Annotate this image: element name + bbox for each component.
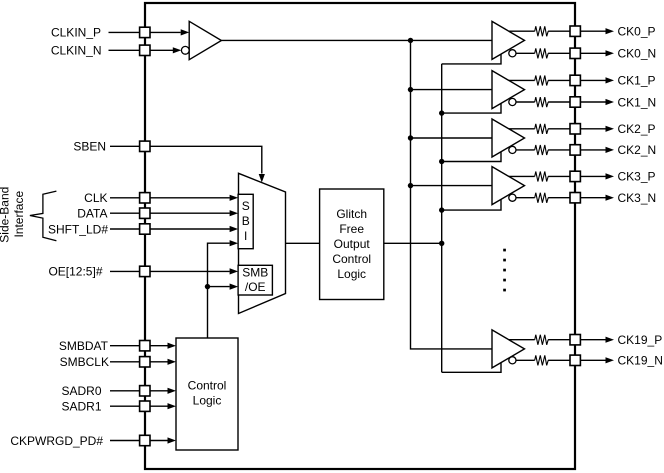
- wire: CKPWRGD_PD# pin into chip: [150, 440, 168, 442]
- arrow from control logic into /OE: [230, 284, 239, 290]
- SBI register box: [238, 194, 253, 248]
- wire: CK2_N from bubble to resistor: [516, 149, 535, 151]
- chip boundary: [145, 3, 575, 469]
- wire: SMBDAT pin into chip: [150, 345, 168, 347]
- svg-text:CK2_N: CK2_N: [618, 143, 657, 157]
- wire: CK0_P pin to arrow: [580, 30, 606, 32]
- wire: CK2_P from buffer to resistor: [509, 128, 535, 130]
- pin DATA: [140, 208, 150, 218]
- arrow CK19_P: [606, 337, 615, 343]
- wire: control logic branch to /OE: [208, 286, 230, 288]
- op-amp output buffer CK0: [492, 21, 525, 59]
- resistor on CK3_N: [535, 193, 549, 203]
- svg-text:Free: Free: [339, 222, 364, 236]
- wire: CK3_P pin to arrow: [580, 175, 606, 177]
- wire: CK19_N from bubble to resistor: [516, 359, 535, 361]
- node: clock bus junction CK0: [408, 38, 413, 43]
- arrow CK3_P: [606, 173, 615, 179]
- SMB/OE box: [238, 265, 272, 295]
- arrow SBEN into SBI mux (down): [259, 174, 265, 183]
- wire: CK1 enable branch: [442, 103, 501, 113]
- wire: SADR0 pin into chip: [150, 390, 168, 392]
- resistor on CK2_N: [535, 145, 549, 155]
- arrow into block for SHFT_LD#: [230, 226, 239, 232]
- pin CKPWRGD_PD#: [140, 435, 150, 445]
- wire: CK1_P from buffer to resistor: [509, 79, 535, 81]
- pin SBEN: [140, 141, 150, 151]
- arrow into block for SMBDAT: [168, 343, 177, 349]
- pin SHFT_LD#: [140, 224, 150, 234]
- svg-text:SADR1: SADR1: [61, 400, 101, 414]
- arrow CK0_N: [606, 50, 615, 56]
- node: enable bus junction CK1: [439, 110, 444, 115]
- pin CK0_N: [570, 48, 580, 58]
- svg-text:CLK: CLK: [84, 191, 107, 205]
- wire: CK1_P pin to arrow: [580, 79, 606, 81]
- wire: enable bus (vertical) from glitch logic: [441, 64, 443, 372]
- svg-text:CK19_P: CK19_P: [618, 333, 663, 347]
- node: enable bus junction CK2: [439, 159, 444, 164]
- svg-text:/OE: /OE: [245, 280, 266, 294]
- svg-text:SBEN: SBEN: [73, 140, 106, 154]
- wire: CK19_N pin to arrow: [580, 359, 606, 361]
- pin CK3_N: [570, 193, 580, 203]
- pin CK0_P: [570, 26, 580, 36]
- wire: CK1_N from bubble to resistor: [516, 101, 535, 103]
- svg-text:Glitch: Glitch: [336, 207, 367, 221]
- wire: SADR1 pin into chip: [150, 405, 168, 407]
- svg-text:Control: Control: [188, 379, 227, 393]
- wire: CLK label to pin: [110, 197, 140, 199]
- node: clock bus junction CK3: [408, 183, 413, 188]
- wire: SMBCLK pin into chip: [150, 361, 168, 363]
- wire: SBI mux output to glitch logic input: [286, 242, 320, 244]
- wire: SMBDAT label to pin: [110, 345, 140, 347]
- wire: CLKIN_N label to pin: [109, 49, 140, 51]
- wire: CK1 P input branch: [411, 89, 493, 91]
- svg-text:CK1_N: CK1_N: [618, 95, 657, 109]
- arrow CK1_N: [606, 99, 615, 105]
- wire: CK2 enable branch: [442, 151, 501, 161]
- pin CLK: [140, 193, 150, 203]
- pin CK1_P: [570, 75, 580, 85]
- svg-text:Control: Control: [332, 252, 371, 266]
- resistor on CK3_P: [535, 172, 549, 182]
- wire: OE[12:5]# pin into chip: [150, 270, 230, 272]
- svg-text:OE[12:5]#: OE[12:5]#: [48, 265, 102, 279]
- side-band interface brace: [30, 191, 57, 241]
- node: enable bus junction CK3: [439, 207, 444, 212]
- arrow into block for CLKIN_N: [173, 47, 182, 53]
- resistor on CK0_P: [535, 26, 549, 36]
- wire: CK0_N from bubble to resistor: [516, 52, 535, 54]
- wire: glitch logic output to enable bus: [384, 242, 442, 244]
- svg-text:Interface: Interface: [12, 191, 26, 238]
- wire: CKPWRGD_PD# label to pin: [110, 440, 140, 442]
- wire: CK19 enable branch: [442, 362, 501, 372]
- resistor on CK0_N: [535, 48, 549, 58]
- op-amp output buffer CK1: [492, 71, 525, 109]
- svg-text:CLKIN_N: CLKIN_N: [51, 44, 102, 58]
- wire: CLK pin into chip: [150, 197, 230, 199]
- wire: SBEN to SBI mux select: [150, 146, 262, 173]
- op-amp output buffer CK19: [492, 330, 525, 368]
- svg-text:SADR0: SADR0: [61, 384, 101, 398]
- svg-text:CK3_P: CK3_P: [618, 170, 656, 184]
- wire: CK19_P pin to arrow: [580, 339, 606, 341]
- inverting output bubble CK2_N: [509, 146, 516, 153]
- arrow CK2_P: [606, 126, 615, 132]
- inverting output bubble CK19_N: [509, 357, 516, 364]
- wire: CK1_N pin to arrow: [580, 101, 606, 103]
- svg-text:Output: Output: [334, 237, 371, 251]
- wire: CK2_N pin to arrow: [580, 149, 606, 151]
- svg-text:CK3_N: CK3_N: [618, 191, 657, 205]
- node: control logic to /OE junction: [205, 284, 210, 289]
- wire: CK2 P input branch: [411, 137, 493, 139]
- arrow into block for CLK: [230, 195, 239, 201]
- svg-text:CLKIN_P: CLKIN_P: [51, 26, 101, 40]
- wire: CK0_P from buffer to resistor: [509, 30, 535, 32]
- wire: CK2_P pin to arrow: [580, 128, 606, 130]
- svg-text:DATA: DATA: [77, 207, 107, 221]
- arrow from control logic into SBI box: [230, 240, 239, 246]
- wire: SHFT_LD# pin into chip: [150, 228, 230, 230]
- op-amp output buffer CK3: [492, 167, 525, 205]
- wire: CK3_N pin to arrow: [580, 197, 606, 199]
- control logic box U3: [176, 338, 238, 450]
- glitch free output control logic box U2: [320, 189, 384, 300]
- node: glitch output to enable bus junction: [439, 241, 444, 246]
- svg-text:CK0_N: CK0_N: [618, 47, 657, 61]
- pin CK2_N: [570, 145, 580, 155]
- wire: SADR1 label to pin: [110, 405, 140, 407]
- svg-text:CK1_P: CK1_P: [618, 74, 656, 88]
- arrow into block for CKPWRGD_PD#: [168, 437, 177, 443]
- inverting output bubble CK0_N: [509, 50, 516, 57]
- wire: CK0 enable branch: [442, 54, 501, 64]
- inverting output bubble CK3_N: [509, 194, 516, 201]
- wire: CK0_N pin to arrow: [580, 52, 606, 54]
- wire: DATA label to pin: [110, 212, 140, 214]
- arrow into block for SADR0: [168, 388, 177, 394]
- node: clock bus junction CK2: [408, 135, 413, 140]
- svg-text:SMBCLK: SMBCLK: [60, 355, 109, 369]
- arrow CK3_N: [606, 195, 615, 201]
- svg-text:I: I: [244, 229, 247, 243]
- wire: CLKIN_P pin into chip: [150, 31, 181, 33]
- arrow CK2_N: [606, 147, 615, 153]
- wire: OE[12:5]# label to pin: [110, 270, 140, 272]
- svg-text:SHFT_LD#: SHFT_LD#: [48, 222, 108, 236]
- svg-text:S: S: [242, 199, 250, 213]
- pin CK2_P: [570, 124, 580, 134]
- wire: CK3_P from buffer to resistor: [509, 175, 535, 177]
- resistor on CK2_P: [535, 124, 549, 134]
- arrow CK19_N: [606, 357, 615, 363]
- svg-text:CK0_P: CK0_P: [618, 25, 656, 39]
- wire: SMBCLK label to pin: [110, 361, 140, 363]
- svg-text:CK2_P: CK2_P: [618, 122, 656, 136]
- wire: CLKIN_N pin into chip: [150, 49, 173, 51]
- arrow into block for CLKIN_P: [181, 29, 190, 35]
- svg-text:SMB: SMB: [242, 266, 268, 280]
- pin CLKIN_N: [140, 45, 150, 55]
- wire: CK3 enable branch: [442, 199, 501, 210]
- pin CLKIN_P: [140, 27, 150, 37]
- inverting-input bubble on CLKIN_N: [181, 46, 189, 54]
- pin SMBDAT: [140, 341, 150, 351]
- wire: control logic up to SBI input: [208, 243, 230, 338]
- svg-text:Side-Band: Side-Band: [0, 187, 12, 243]
- op-amp output buffer CK2: [492, 119, 525, 157]
- wire: SADR0 label to pin: [110, 390, 140, 392]
- wire: SHFT_LD# label to pin: [110, 228, 140, 230]
- pin CK3_P: [570, 171, 580, 181]
- arrow into block for OE[12:5]#: [230, 268, 239, 274]
- svg-text:SMBDAT: SMBDAT: [59, 339, 109, 353]
- ellipsis dots (channels 4..18 omitted): [503, 249, 506, 292]
- pin CK1_N: [570, 97, 580, 107]
- pin SADR1: [140, 401, 150, 411]
- wire: CLKIN_P label to pin: [109, 31, 140, 33]
- pin OE[12:5]#: [140, 266, 150, 276]
- svg-text:B: B: [242, 214, 250, 228]
- resistor on CK1_N: [535, 97, 549, 107]
- resistor on CK1_P: [535, 76, 549, 86]
- arrow CK1_P: [606, 77, 615, 83]
- arrow into block for SADR1: [168, 403, 177, 409]
- inverting output bubble CK1_N: [509, 98, 516, 105]
- arrow CK0_P: [606, 28, 615, 34]
- SBI mux trapezoid: [239, 173, 286, 313]
- svg-text:Logic: Logic: [337, 267, 366, 281]
- wire: CK3_N from bubble to resistor: [516, 197, 535, 199]
- wire: CK19_P from buffer to resistor: [509, 339, 535, 341]
- op-amp input buffer (CLKIN differential receiver): [189, 21, 221, 59]
- pin SADR0: [140, 386, 150, 396]
- arrow into block for SMBCLK: [168, 359, 177, 365]
- resistor on CK19_N: [535, 355, 549, 365]
- resistor on CK19_P: [535, 335, 549, 345]
- pin CK19_P: [570, 335, 580, 345]
- wire: clock bus (vertical) feeding P inputs: [411, 40, 493, 349]
- svg-text:CK19_N: CK19_N: [618, 354, 663, 368]
- svg-text:CKPWRGD_PD#: CKPWRGD_PD#: [10, 434, 103, 448]
- wire: DATA pin into chip: [150, 212, 230, 214]
- wire: CK3 P input branch: [411, 185, 493, 187]
- wire: main clock line from input buffer to CK0 buffer: [221, 39, 492, 41]
- svg-text:Logic: Logic: [193, 394, 222, 408]
- pin CK19_N: [570, 355, 580, 365]
- node: clock bus junction CK1: [408, 87, 413, 92]
- wire: SBEN label to pin: [110, 145, 140, 147]
- pin SMBCLK: [140, 357, 150, 367]
- arrow into block for DATA: [230, 210, 239, 216]
